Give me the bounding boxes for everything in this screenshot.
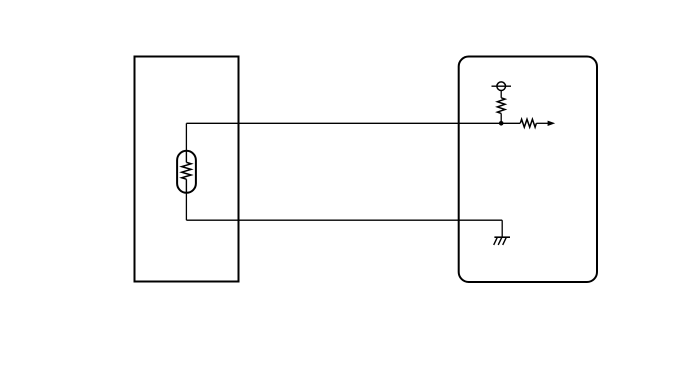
thermistor RT1: internal leads (185, 151, 187, 193)
wire: series resistor to arrow (536, 122, 548, 124)
wire: top horizontal run to node (186, 122, 501, 124)
ground: hatch stroke 1 (494, 238, 498, 245)
supply terminal: circle (497, 82, 506, 91)
resistor R1 (pull-up, vertical zigzag) (497, 98, 505, 114)
thermistor RT1: stadium body (177, 151, 196, 193)
thermistor RT1: zigzag element (182, 162, 191, 179)
resistor R2 (series output, horizontal zigzag) (520, 119, 536, 127)
ground: horizontal bar (494, 236, 510, 238)
wire: top lead from element up (185, 123, 187, 151)
node junction dot (499, 121, 504, 126)
right enclosure box (controller) (459, 57, 597, 283)
wire: pull-up resistor to node (500, 113, 502, 123)
wire: drop to ground (501, 220, 503, 237)
wire: circle to pull-up resistor (500, 91, 502, 98)
wire: bottom lead from element down (185, 193, 187, 220)
wire: bottom horizontal run (186, 219, 502, 221)
left enclosure box (probe) (135, 57, 239, 282)
ground: hatch stroke 3 (503, 238, 507, 245)
wire: node to series resistor (501, 122, 520, 124)
ground: hatch stroke 2 (498, 238, 502, 245)
output arrowhead (548, 121, 556, 126)
supply terminal: crossbar (492, 85, 512, 87)
